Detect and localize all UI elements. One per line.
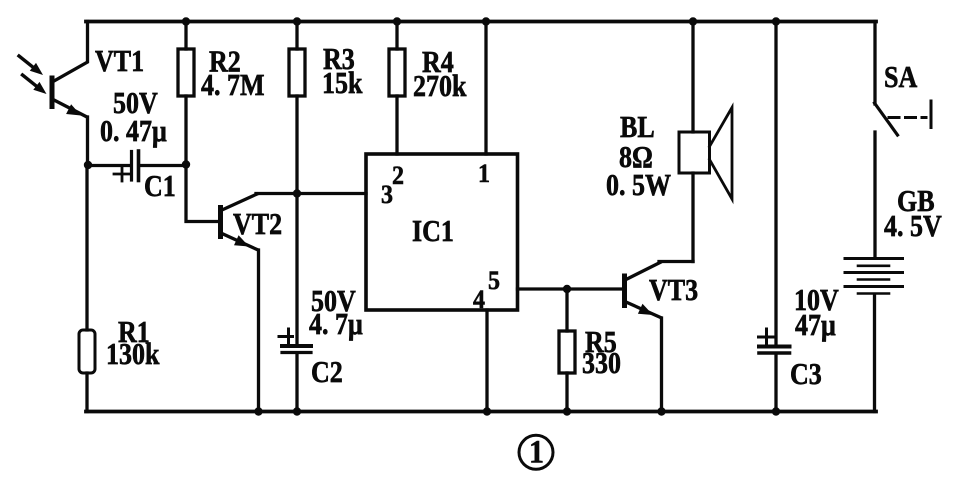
- svg-text:4: 4: [473, 286, 485, 314]
- svg-text:130k: 130k: [106, 338, 160, 371]
- svg-text:0. 5W: 0. 5W: [606, 169, 671, 202]
- svg-text:4. 7M: 4. 7M: [201, 69, 265, 102]
- svg-text:15k: 15k: [322, 67, 363, 100]
- svg-text:VT2: VT2: [233, 208, 282, 241]
- svg-text:5: 5: [488, 267, 500, 295]
- svg-text:330: 330: [582, 347, 621, 380]
- svg-text:SA: SA: [884, 61, 918, 94]
- svg-text:0. 47μ: 0. 47μ: [100, 115, 167, 148]
- svg-text:VT1: VT1: [95, 45, 144, 78]
- svg-text:IC1: IC1: [412, 215, 454, 248]
- svg-text:BL: BL: [620, 111, 655, 144]
- svg-text:3: 3: [381, 181, 393, 209]
- svg-text:47μ: 47μ: [795, 309, 836, 342]
- svg-text:270k: 270k: [413, 70, 467, 103]
- svg-text:1: 1: [478, 160, 490, 188]
- svg-text:C2: C2: [311, 356, 343, 389]
- svg-text:4. 7μ: 4. 7μ: [309, 308, 363, 341]
- svg-text:4. 5V: 4. 5V: [884, 210, 942, 243]
- svg-text:2: 2: [392, 162, 404, 190]
- svg-text:C1: C1: [144, 170, 176, 203]
- svg-text:C3: C3: [790, 358, 822, 391]
- svg-text:VT3: VT3: [649, 274, 698, 307]
- svg-text:1: 1: [529, 433, 544, 470]
